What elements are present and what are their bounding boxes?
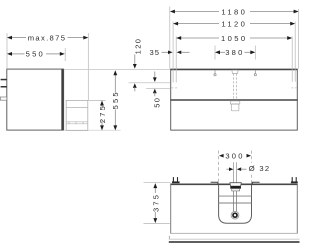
floor/wall line light (169, 238, 300, 240)
floor corner stub (168, 236, 170, 240)
mixer lower body (232, 189, 240, 191)
cabinet front edge (thick) (61, 69, 63, 130)
extension lines, front view (129, 7, 299, 89)
svg-text:275: 275 (98, 104, 107, 123)
cutout corner mark left (211, 182, 218, 184)
recess inner line 2 (219, 202, 252, 204)
ext 380 right (254, 46, 256, 60)
wall bracket right (posts + base) (291, 177, 298, 183)
faucet hole right (254, 70, 256, 76)
dimension max.875 (7, 33, 88, 42)
dimension 1180 (170, 7, 299, 16)
svg-text:1120: 1120 (221, 19, 247, 28)
drawer bottom runner strip (66, 122, 88, 124)
cutout corner mark right (252, 182, 259, 184)
recess wall centerlines (dashed, up to 300-dim) (219, 151, 252, 185)
hidden carcass top dashes (172, 87, 297, 89)
svg-text:1180: 1180 (221, 7, 247, 16)
ext 380 left (214, 46, 216, 60)
drain hole inner ring (233, 213, 237, 217)
extension lines, side view (7, 33, 170, 130)
extension lines, bottom view (144, 183, 171, 224)
console outline sides/bottom (170, 184, 297, 233)
drain pipe above edge (234, 162, 237, 182)
dimension 1120 (173, 19, 295, 28)
svg-text:555: 555 (111, 90, 120, 109)
dimension 275 (vertical) (98, 101, 107, 131)
dimension 1050 (176, 34, 292, 43)
recess inner line 1 (219, 195, 252, 197)
console top edge (thick) (170, 68, 297, 70)
ext 1180 left (169, 7, 171, 69)
ext 1050 right (291, 37, 293, 82)
ext console bottom (120/50 dims) (129, 82, 171, 84)
ext carcass top (50 dim) (146, 87, 171, 89)
ext 1050 left (175, 37, 177, 83)
dimension 120 (vertical, outside arrows) (133, 38, 143, 92)
siphon (230, 101, 239, 111)
wall bracket box (0, 97, 6, 100)
ext line console top (to front view) (64, 68, 171, 70)
drain pipe inside recess (234, 190, 237, 212)
dimension 35 (149, 48, 189, 57)
cabinet front outline (170, 69, 297, 130)
svg-text:1050: 1050 (221, 34, 248, 43)
wall bracket tab 1 (1, 79, 7, 81)
drain hole outer (231, 211, 239, 219)
dimension 300 (outside arrows) (219, 152, 251, 161)
ext 1120 right (294, 22, 296, 82)
svg-text:375: 375 (152, 193, 161, 212)
svg-text:120: 120 (134, 38, 143, 55)
dimension 550 (7, 50, 65, 59)
dimension 50 (vertical, outside arrows) (153, 72, 162, 108)
wall bracket left (posts + base) (172, 177, 180, 183)
ext line 550 right (64, 48, 66, 61)
mixer tailpiece (232, 70, 238, 73)
mixer gasket (dark) (230, 186, 241, 189)
ext line cabinet bottom (64, 129, 121, 131)
drawer top edge (thick) (170, 99, 297, 101)
svg-text:550: 550 (26, 50, 45, 59)
dimension 375 (vertical) (152, 183, 161, 223)
ext 1120 left (172, 22, 174, 83)
ext 1180 right (298, 9, 300, 69)
svg-text:35: 35 (149, 48, 160, 57)
drain pipe (dashed) (234, 74, 237, 101)
svg-text:380: 380 (225, 48, 244, 57)
wall bracket tab 2 (1, 86, 7, 88)
cabinet side outline (7, 69, 64, 130)
U-shaped siphon recess (219, 185, 252, 223)
svg-text:300: 300 (225, 152, 244, 161)
ext 375 top (144, 182, 171, 184)
dimension Ø32 (outside arrows) (227, 164, 271, 173)
svg-text:max.875: max.875 (28, 33, 67, 42)
faucet hole left (214, 70, 216, 76)
ext 375 bottom (144, 223, 170, 225)
dimension 380 (215, 48, 255, 57)
console back edge (thick) (170, 183, 297, 185)
svg-text:Ø 32: Ø 32 (249, 164, 271, 173)
ext line wall (x=7) (6, 33, 8, 69)
svg-text:50: 50 (153, 97, 162, 108)
floor/wall line dark (169, 241, 300, 243)
pulled-out drawer box (light) (66, 100, 88, 130)
mixer escutcheon (230, 183, 241, 186)
ext line max.875 right (87, 33, 89, 100)
dimension 555 (vertical) (111, 70, 120, 130)
